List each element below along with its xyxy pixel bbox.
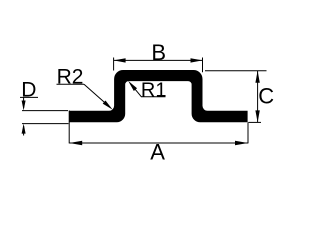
dimension A line <box>69 142 248 144</box>
dimension A extension line left <box>68 111 70 144</box>
dimension C arrow top <box>255 71 259 83</box>
dimension A arrow right <box>235 141 248 145</box>
svg-text:R2: R2 <box>57 65 84 88</box>
svg-text:B: B <box>151 40 166 65</box>
label D underline <box>20 96 38 98</box>
svg-text:C: C <box>258 84 274 109</box>
dimension B line <box>114 59 203 61</box>
dimension D lower arrow head <box>22 124 26 134</box>
dimension D upper arrow line <box>23 97 25 108</box>
R1 leader line <box>131 84 142 97</box>
dimension D lower arrow line <box>23 126 25 136</box>
R1 leader arrow head <box>128 81 137 91</box>
svg-text:A: A <box>150 140 165 165</box>
R1 landing line <box>141 96 166 98</box>
dimension D extension line top <box>22 110 68 112</box>
svg-text:R1: R1 <box>141 79 167 101</box>
dimension B arrow left <box>114 58 126 62</box>
dimension B arrow right <box>191 58 203 62</box>
dimension D extension line bottom <box>22 123 69 125</box>
dimension C extension line bottom <box>249 121 262 123</box>
dimension B extension line right <box>202 58 204 73</box>
dimension C extension line top <box>205 70 267 72</box>
hat channel profile cross-section <box>69 70 247 122</box>
dimension A arrow left <box>69 141 82 145</box>
R2 leader arrow head <box>103 101 113 110</box>
dimension C arrow bottom <box>255 110 259 122</box>
R2 landing line <box>57 83 85 85</box>
R2 leader line <box>84 84 110 107</box>
dimension C line <box>257 71 259 123</box>
dimension D upper arrow head <box>22 101 26 111</box>
dimension B extension line left <box>113 58 115 71</box>
dimension A extension line right <box>247 122 249 143</box>
